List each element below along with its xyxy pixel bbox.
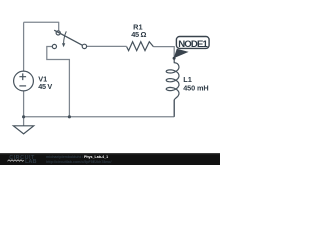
svg-text:LAB: LAB [25,159,37,165]
svg-text:http://circuitlab.com/c/5pF5E2: http://circuitlab.com/c/5pF5E2kh78mc/ [46,160,112,164]
wire inductor bottom [173,100,175,117]
switch left throw terminal [52,44,56,48]
wire left throw down-around [47,47,70,117]
switch lever [54,30,82,45]
ground [13,126,33,134]
svg-text:NODE1: NODE1 [178,39,208,50]
wire bottom horizontal [24,116,175,118]
logo squiggle [8,160,24,162]
junction dot ground-V1 [22,115,25,118]
V1 minus [19,85,26,87]
svg-text:45 V: 45 V [38,82,52,91]
voltage source V1 circle [14,71,34,91]
switch top throw terminal [56,31,60,35]
switch common terminal [82,44,86,48]
NODE1 flag pointer [174,49,189,58]
resistor R1 [127,42,154,51]
wire top-left horizontal [24,21,59,23]
junction dot switch branch [68,115,71,118]
svg-text:michaelplembolduht / Phys_Lab-: michaelplembolduht / Phys_Lab-4_1 [46,155,108,159]
wire switch common to resistor [87,45,127,47]
NODE1 flag box [176,37,209,49]
junction dot NODE1 anchor [173,57,176,60]
V1 plus [19,73,26,80]
svg-text:L1: L1 [183,75,192,84]
wire resistor to NODE1 corner [153,47,174,59]
wire to top throw [58,22,60,31]
svg-text:450 mH: 450 mH [183,84,208,93]
watermark bar [0,153,220,165]
switch arrow [64,31,67,43]
wire left vertical to V1 [23,22,25,71]
inductor L1 coil [166,58,179,117]
svg-text:45 Ω: 45 Ω [131,30,146,39]
wire V1 bottom to ground [23,91,25,126]
